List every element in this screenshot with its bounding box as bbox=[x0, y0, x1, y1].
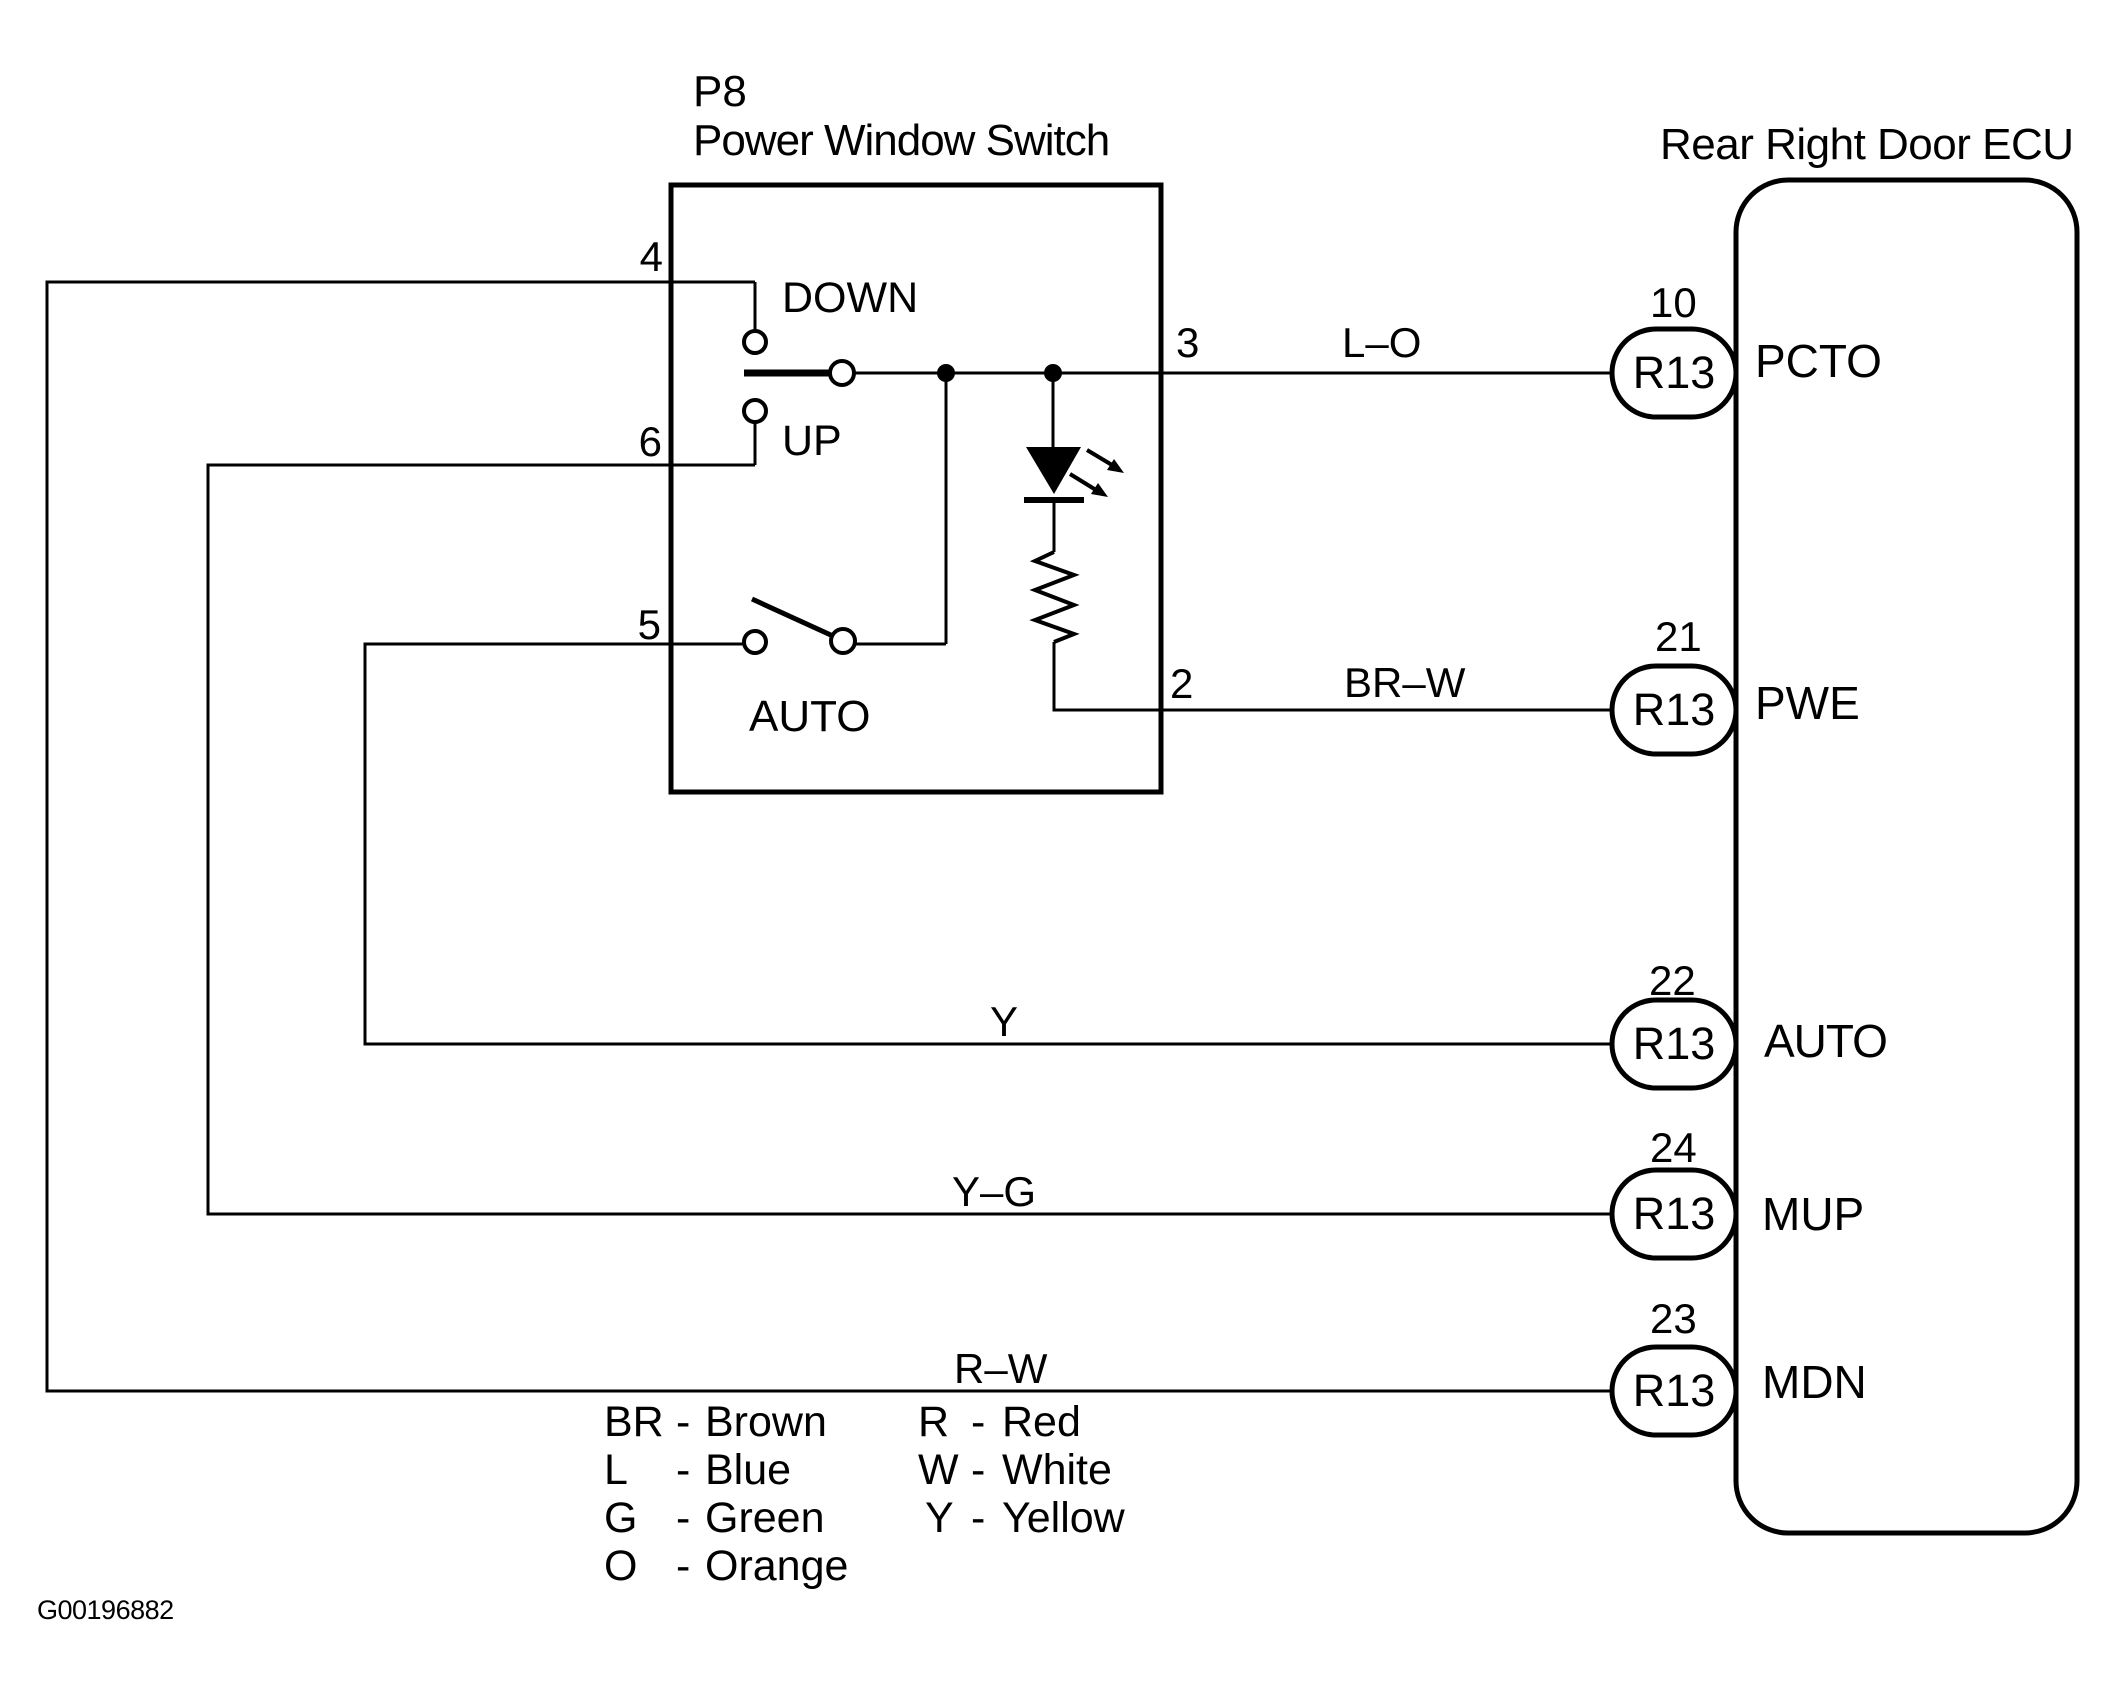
svg-text:21: 21 bbox=[1655, 613, 1702, 660]
svg-text:-: - bbox=[676, 1542, 690, 1590]
svg-text:-: - bbox=[971, 1446, 985, 1494]
svg-text:O: O bbox=[604, 1542, 637, 1590]
connector terminal R13 pin 22 bbox=[1612, 1000, 1736, 1088]
ECU box Rear Right Door ECU bbox=[1736, 180, 2077, 1533]
svg-text:22: 22 bbox=[1649, 957, 1696, 1004]
wire net Y: pin 5 to AUTO bbox=[365, 644, 1612, 1044]
contact AUTO right bbox=[831, 629, 855, 653]
svg-text:R13: R13 bbox=[1633, 684, 1716, 735]
wire junction to LED anode bbox=[1052, 373, 1055, 447]
contact AUTO left bbox=[744, 631, 766, 653]
svg-text:2: 2 bbox=[1170, 660, 1193, 707]
switch AUTO blade bbox=[752, 599, 833, 636]
svg-text:5: 5 bbox=[638, 601, 661, 648]
wire net R-W: pin 4 to MDN bbox=[47, 282, 1612, 1391]
svg-text:Rear Right Door ECU: Rear Right Door ECU bbox=[1660, 120, 2074, 169]
svg-text:24: 24 bbox=[1650, 1124, 1697, 1171]
svg-text:Brown: Brown bbox=[705, 1398, 827, 1446]
contact common (movable) bbox=[830, 361, 854, 385]
svg-text:-: - bbox=[676, 1494, 690, 1542]
wire common contact blade (thick) bbox=[744, 370, 831, 377]
connector terminal R13 pin 23 bbox=[1612, 1347, 1736, 1435]
svg-text:PCTO: PCTO bbox=[1755, 335, 1882, 387]
svg-text:R: R bbox=[918, 1398, 949, 1446]
svg-text:Y: Y bbox=[990, 998, 1018, 1045]
svg-text:White: White bbox=[1002, 1446, 1112, 1494]
svg-text:-: - bbox=[971, 1494, 985, 1542]
svg-text:BR–W: BR–W bbox=[1344, 659, 1466, 706]
wire net BR-W: resistor to pin 2 / PWE bbox=[1054, 642, 1612, 710]
svg-text:L: L bbox=[604, 1446, 628, 1494]
svg-text:10: 10 bbox=[1650, 279, 1697, 326]
svg-text:R–W: R–W bbox=[954, 1345, 1048, 1392]
junction node at AUTO branch bbox=[937, 364, 955, 382]
svg-text:Blue: Blue bbox=[705, 1446, 791, 1494]
svg-text:-: - bbox=[676, 1446, 690, 1494]
svg-text:-: - bbox=[676, 1398, 690, 1446]
svg-text:P8: P8 bbox=[693, 67, 747, 116]
junction node at LED branch bbox=[1044, 364, 1062, 382]
svg-text:Power Window Switch: Power Window Switch bbox=[693, 116, 1109, 165]
svg-text:UP: UP bbox=[782, 417, 842, 465]
svg-text:Orange: Orange bbox=[705, 1542, 848, 1590]
connector terminal R13 pin 21 bbox=[1612, 666, 1736, 754]
connector terminal R13 pin 10 bbox=[1612, 329, 1736, 417]
svg-text:4: 4 bbox=[640, 233, 663, 280]
svg-text:G00196882: G00196882 bbox=[37, 1595, 174, 1625]
svg-text:Green: Green bbox=[705, 1494, 825, 1542]
svg-text:DOWN: DOWN bbox=[782, 274, 918, 322]
svg-text:G: G bbox=[604, 1494, 637, 1542]
connector terminal R13 pin 24 bbox=[1612, 1170, 1736, 1258]
svg-text:L–O: L–O bbox=[1342, 319, 1421, 366]
wire net Y-G: pin 6 to MUP bbox=[208, 465, 1612, 1214]
LED cathode bar bbox=[1024, 497, 1084, 503]
wire stub pin 4 to DOWN contact bbox=[754, 282, 757, 331]
connector P8 Power Window Switch box bbox=[671, 185, 1161, 792]
svg-text:Yellow: Yellow bbox=[1002, 1494, 1126, 1542]
svg-text:BR: BR bbox=[604, 1398, 664, 1446]
svg-text:23: 23 bbox=[1650, 1295, 1697, 1342]
svg-text:Y: Y bbox=[925, 1494, 954, 1542]
wire stub pin 6 to UP contact bbox=[754, 423, 757, 465]
svg-text:AUTO: AUTO bbox=[749, 692, 870, 741]
svg-text:MUP: MUP bbox=[1762, 1188, 1864, 1240]
svg-text:PWE: PWE bbox=[1755, 677, 1860, 729]
resistor zigzag bbox=[1035, 552, 1074, 642]
svg-text:MDN: MDN bbox=[1762, 1356, 1867, 1408]
svg-text:R13: R13 bbox=[1633, 347, 1716, 398]
svg-text:W: W bbox=[918, 1446, 959, 1494]
svg-text:Y–G: Y–G bbox=[952, 1168, 1036, 1215]
wire AUTO right contact to node bbox=[855, 643, 946, 646]
svg-text:AUTO: AUTO bbox=[1764, 1015, 1887, 1067]
contact DOWN bbox=[744, 331, 766, 353]
svg-text:-: - bbox=[971, 1398, 985, 1446]
svg-text:R13: R13 bbox=[1633, 1365, 1716, 1416]
svg-text:6: 6 bbox=[639, 418, 662, 465]
LED emission arrow 1 bbox=[1087, 450, 1112, 465]
LED indicator lamp triangle bbox=[1026, 447, 1081, 494]
svg-text:3: 3 bbox=[1176, 319, 1199, 366]
contact UP bbox=[744, 400, 766, 422]
svg-text:R13: R13 bbox=[1633, 1018, 1716, 1069]
wire LED cathode to resistor bbox=[1053, 503, 1056, 552]
svg-text:Red: Red bbox=[1002, 1398, 1081, 1446]
LED emission arrow 2 bbox=[1070, 474, 1096, 490]
wire net L-O: pin 3 to PCTO bbox=[854, 372, 1612, 375]
wire node to pin3 line bbox=[945, 373, 948, 644]
svg-text:R13: R13 bbox=[1633, 1188, 1716, 1239]
